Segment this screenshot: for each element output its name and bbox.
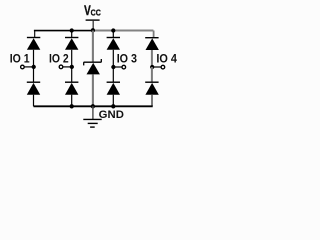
junction node top IO3 (111, 28, 115, 32)
wire top rail right (93, 30, 153, 32)
svg-text:IO 4: IO 4 (156, 51, 177, 65)
svg-text:IO 2: IO 2 (49, 51, 69, 65)
wire IO2 terminal stub (61, 66, 72, 68)
junction node top VCC (91, 28, 95, 32)
junction node IO2 (70, 65, 74, 69)
wire IO4 terminal stub (152, 66, 163, 68)
junction node bottom IO3 (111, 104, 115, 108)
terminal pin IO4 (161, 65, 165, 69)
wire IO1 terminal stub (22, 66, 33, 68)
diode D3 IO3-to-VCC (107, 31, 120, 50)
terminal pin IO3 (122, 65, 126, 69)
diode D6 GND-to-IO2 (65, 67, 78, 95)
wire D3 anode to IO3 node (112, 50, 114, 67)
zener DZ symbol (84, 59, 102, 74)
svg-text:CC: CC (91, 9, 101, 18)
wire bottom GND rail (34, 105, 153, 107)
terminal pin IO1 (21, 65, 25, 69)
wire D6 anode to GND rail (71, 95, 73, 107)
ground symbol (83, 106, 101, 127)
diode D8 GND-to-IO4 (145, 67, 159, 95)
wire D1 anode to IO1 node (33, 50, 35, 67)
wire DZ anode to GND rail (92, 74, 94, 106)
wire D7 anode to GND rail (112, 95, 114, 107)
diode D7 GND-to-IO3 (107, 67, 120, 95)
VCC power bar (86, 19, 100, 21)
wire D4 anode to IO4 node (151, 50, 153, 67)
junction node IO4 (150, 65, 154, 69)
svg-text:IO 3: IO 3 (117, 51, 138, 65)
junction node bottom IO2 (70, 104, 74, 108)
zener DZ VCC-to-GND cathode wire (92, 31, 94, 63)
svg-text:GND: GND (99, 109, 125, 121)
wire IO3 terminal stub (113, 66, 124, 68)
diode D4 IO4-to-VCC (145, 31, 159, 51)
svg-text:IO 1: IO 1 (10, 51, 30, 65)
wire D2 anode to IO2 node (71, 50, 73, 67)
diode D1 IO1-to-VCC (27, 31, 40, 50)
terminal pin IO2 (59, 65, 63, 69)
junction node top IO2 (70, 28, 74, 32)
wire D8 anode to GND rail (151, 95, 153, 107)
net VCC label (84, 2, 101, 18)
wire top rail left (34, 30, 93, 32)
wire VCC stem (92, 21, 94, 31)
junction node bottom GND (91, 104, 95, 108)
junction node IO1 (32, 65, 36, 69)
wire D5 anode to GND rail (33, 95, 35, 107)
diode D2 IO2-to-VCC (65, 31, 78, 50)
junction node IO3 (111, 65, 115, 69)
diode D5 GND-to-IO1 (27, 67, 40, 95)
